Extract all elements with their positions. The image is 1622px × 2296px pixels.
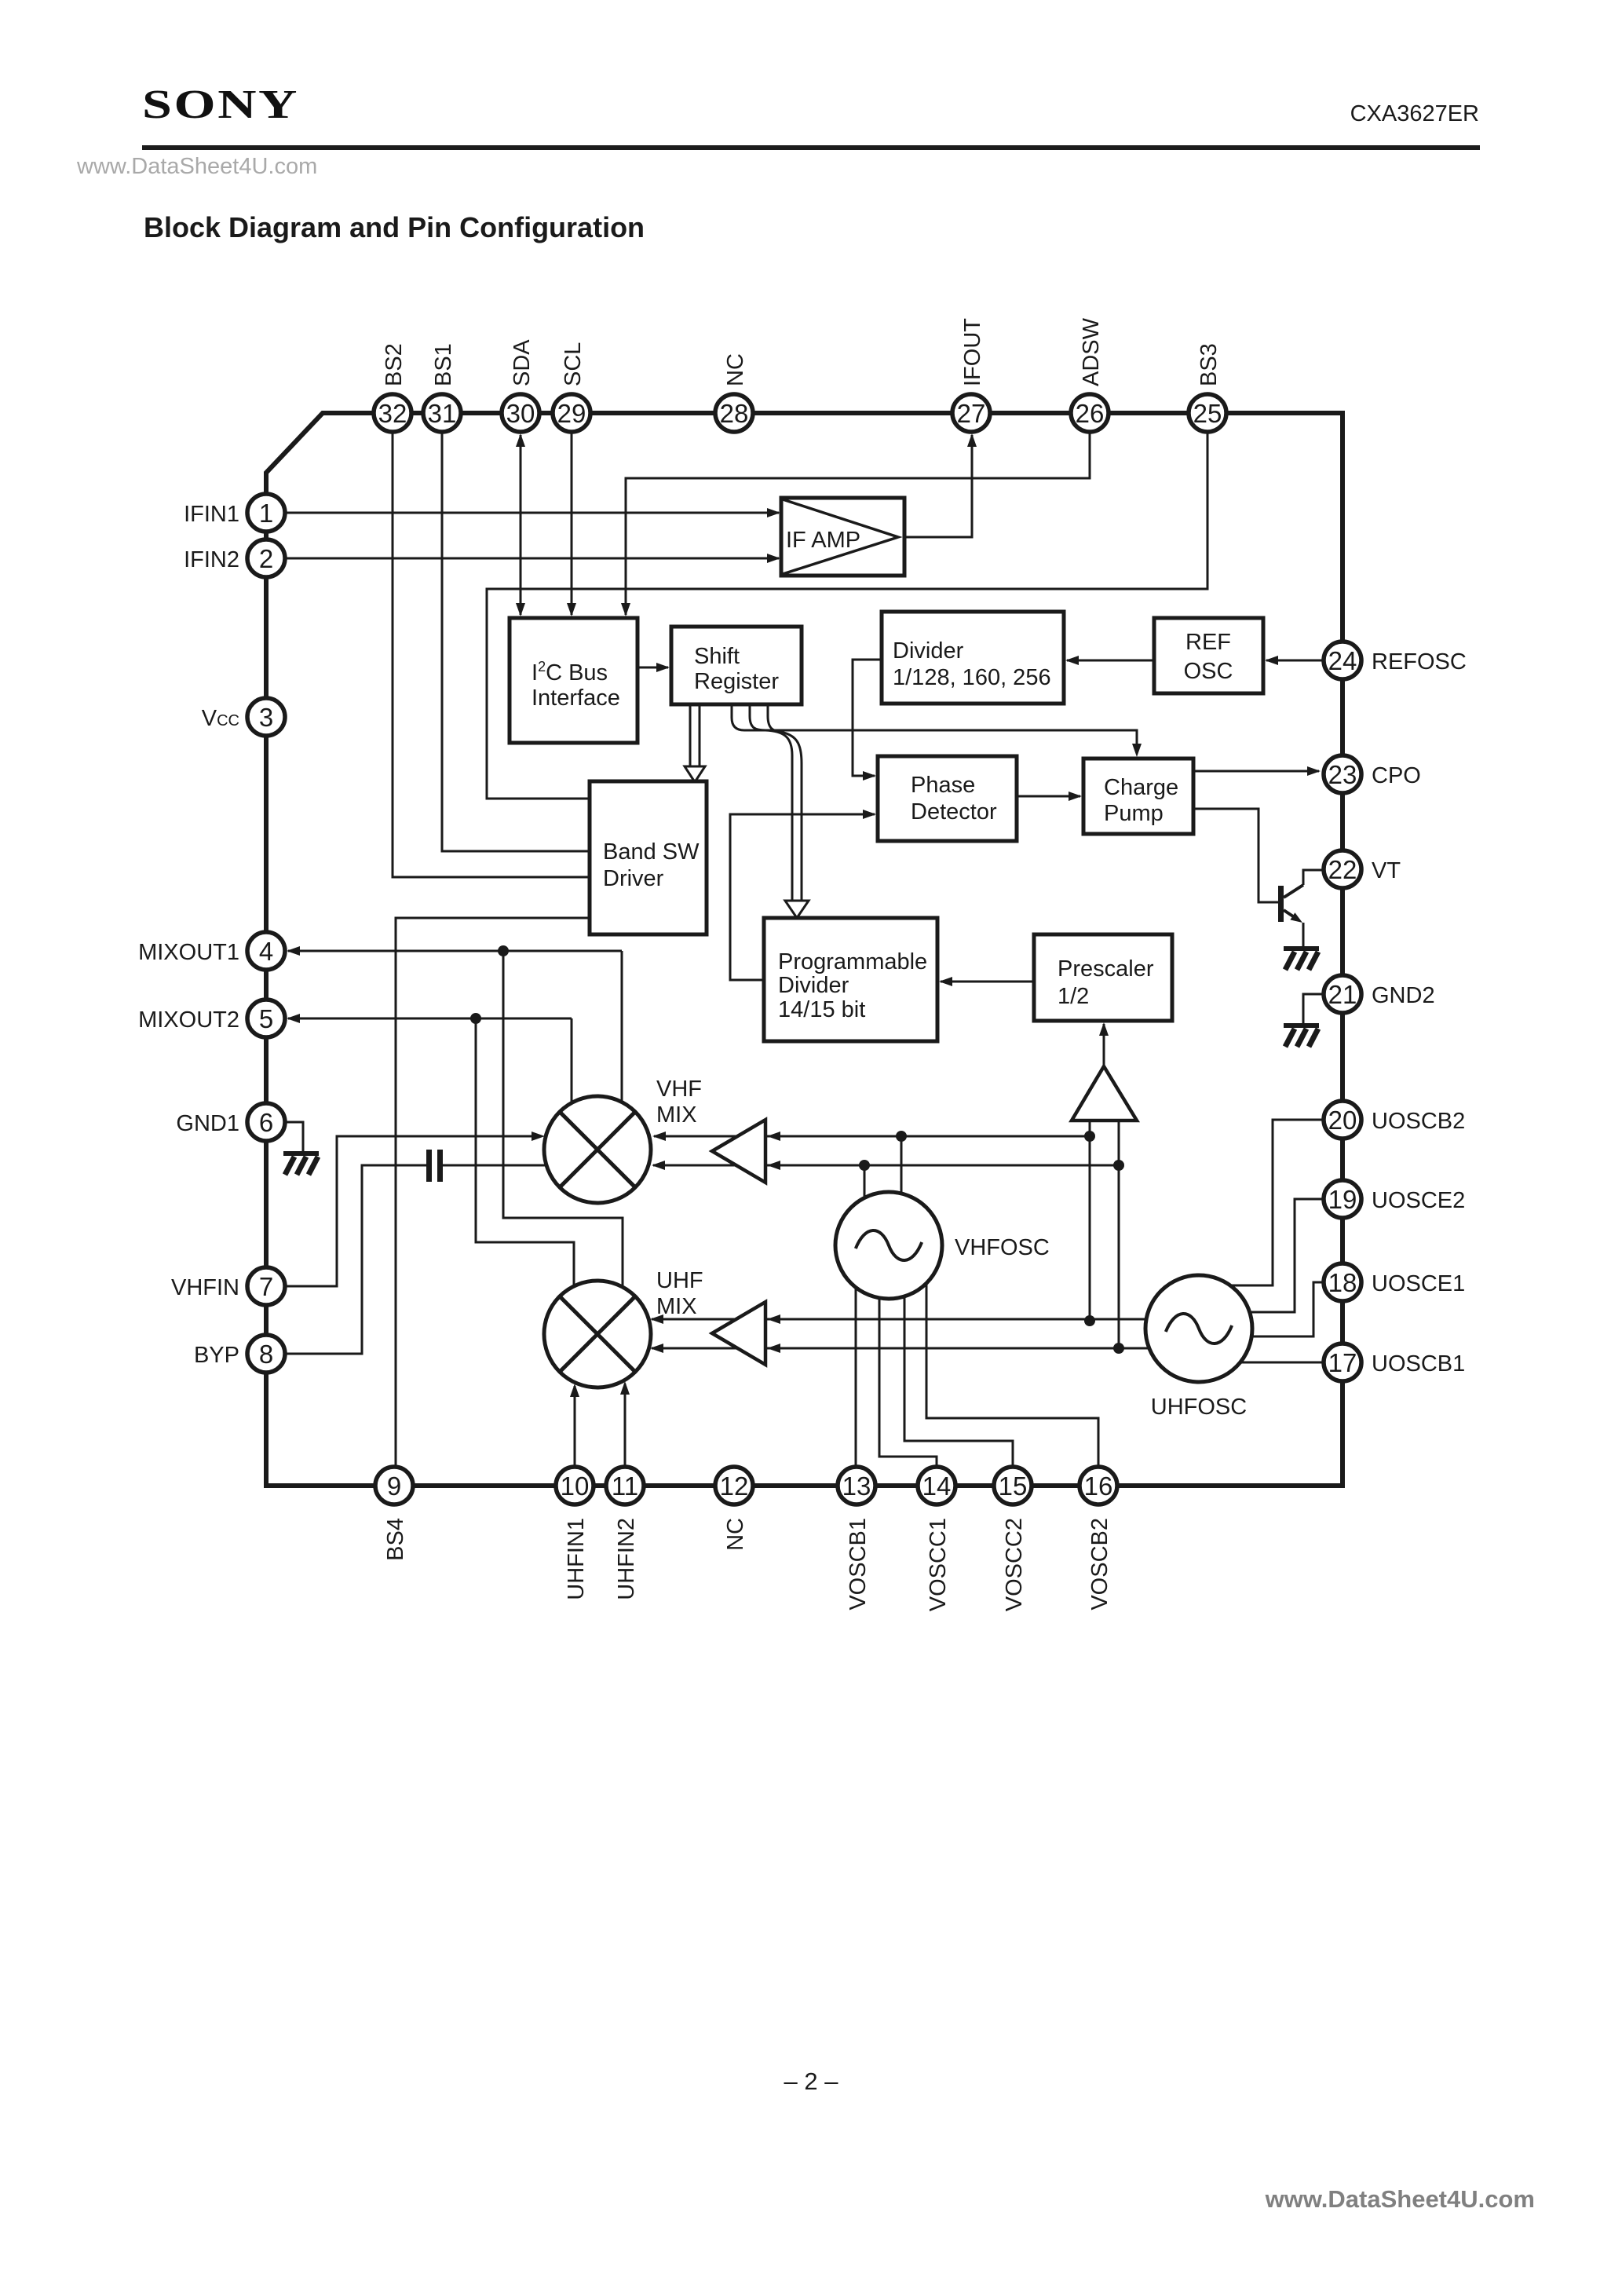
svg-text:26: 26	[1076, 399, 1105, 428]
svg-text:MIX: MIX	[656, 1294, 697, 1319]
svg-text:Band SW: Band SW	[603, 839, 700, 865]
svg-text:VOSCB2: VOSCB2	[1087, 1518, 1112, 1610]
svg-text:UHFIN2: UHFIN2	[614, 1518, 639, 1600]
svg-text:27: 27	[957, 399, 986, 428]
svg-text:14/15 bit: 14/15 bit	[778, 997, 865, 1022]
svg-text:IFIN2: IFIN2	[184, 547, 239, 572]
svg-text:VHF: VHF	[656, 1077, 702, 1102]
svg-text:IFOUT: IFOUT	[960, 318, 985, 386]
svg-text:12: 12	[720, 1472, 749, 1501]
svg-text:SCL: SCL	[561, 342, 586, 386]
svg-text:10: 10	[561, 1472, 590, 1501]
svg-text:23: 23	[1328, 760, 1357, 789]
svg-text:REFOSC: REFOSC	[1372, 649, 1467, 675]
svg-text:VHFOSC: VHFOSC	[955, 1235, 1050, 1260]
svg-text:Pump: Pump	[1104, 801, 1164, 826]
svg-text:VOSCC2: VOSCC2	[1002, 1518, 1027, 1611]
svg-text:Block Diagram and Pin Configur: Block Diagram and Pin Configuration	[144, 211, 645, 243]
svg-text:BS1: BS1	[431, 343, 456, 386]
svg-text:UHFIN1: UHFIN1	[564, 1518, 589, 1600]
svg-text:CXA3627ER: CXA3627ER	[1350, 101, 1479, 126]
svg-text:MIXOUT1: MIXOUT1	[138, 940, 239, 965]
svg-text:4: 4	[259, 937, 273, 966]
svg-text:3: 3	[259, 703, 273, 732]
svg-text:28: 28	[720, 399, 749, 428]
svg-text:UOSCE2: UOSCE2	[1372, 1188, 1465, 1213]
svg-text:15: 15	[999, 1472, 1028, 1501]
svg-text:16: 16	[1084, 1472, 1113, 1501]
svg-text:18: 18	[1328, 1268, 1357, 1297]
svg-text:– 2 –: – 2 –	[784, 2067, 839, 2095]
svg-text:IF AMP: IF AMP	[786, 528, 860, 553]
svg-text:25: 25	[1193, 399, 1222, 428]
svg-text:BS3: BS3	[1196, 343, 1222, 386]
svg-text:Prescaler: Prescaler	[1058, 956, 1154, 982]
svg-text:SDA: SDA	[510, 339, 535, 386]
svg-text:VHFIN: VHFIN	[171, 1275, 239, 1300]
svg-text:NC: NC	[723, 1518, 748, 1551]
svg-text:BS2: BS2	[382, 343, 407, 386]
svg-text:11: 11	[612, 1472, 638, 1501]
svg-text:NC: NC	[723, 353, 748, 386]
svg-text:VOSCB1: VOSCB1	[846, 1518, 871, 1610]
svg-text:Register: Register	[694, 669, 779, 694]
svg-text:Phase: Phase	[911, 773, 975, 798]
svg-text:21: 21	[1328, 980, 1357, 1009]
svg-text:19: 19	[1328, 1185, 1357, 1214]
svg-text:20: 20	[1328, 1106, 1357, 1135]
svg-text:BYP: BYP	[194, 1343, 239, 1368]
svg-text:www.DataSheet4U.com: www.DataSheet4U.com	[76, 154, 317, 179]
svg-text:UHFOSC: UHFOSC	[1151, 1395, 1247, 1420]
svg-text:UOSCE1: UOSCE1	[1372, 1271, 1465, 1296]
svg-text:ADSW: ADSW	[1079, 317, 1104, 386]
svg-text:SONY: SONY	[142, 82, 299, 127]
svg-text:MIXOUT2: MIXOUT2	[138, 1007, 239, 1033]
svg-text:9: 9	[387, 1472, 401, 1501]
svg-text:22: 22	[1328, 855, 1357, 884]
svg-text:13: 13	[842, 1472, 871, 1501]
svg-text:CPO: CPO	[1372, 763, 1421, 788]
svg-text:6: 6	[259, 1108, 273, 1137]
svg-text:32: 32	[378, 399, 407, 428]
svg-text:Divider: Divider	[893, 638, 964, 664]
svg-text:Detector: Detector	[911, 799, 997, 824]
svg-text:Shift: Shift	[694, 644, 740, 669]
svg-text:8: 8	[259, 1340, 273, 1369]
svg-text:Interface: Interface	[532, 686, 620, 711]
svg-text:2: 2	[259, 544, 273, 573]
svg-text:www.DataSheet4U.com: www.DataSheet4U.com	[1265, 2185, 1535, 2213]
svg-text:VT: VT	[1372, 858, 1401, 883]
svg-text:GND1: GND1	[176, 1111, 239, 1136]
svg-text:24: 24	[1328, 646, 1357, 675]
svg-text:14: 14	[922, 1472, 952, 1501]
svg-text:UHF: UHF	[656, 1268, 703, 1293]
svg-text:Charge: Charge	[1104, 775, 1178, 800]
svg-text:UOSCB2: UOSCB2	[1372, 1109, 1465, 1134]
svg-text:UOSCB1: UOSCB1	[1372, 1351, 1465, 1377]
svg-text:VOSCC1: VOSCC1	[926, 1518, 951, 1611]
svg-text:1/2: 1/2	[1058, 984, 1089, 1009]
svg-text:Programmable: Programmable	[778, 949, 927, 974]
svg-text:REF: REF	[1185, 630, 1231, 655]
svg-text:GND2: GND2	[1372, 983, 1435, 1008]
svg-text:29: 29	[557, 399, 586, 428]
svg-text:1/128, 160, 256: 1/128, 160, 256	[893, 665, 1051, 690]
svg-text:Driver: Driver	[603, 866, 664, 891]
svg-text:17: 17	[1328, 1348, 1357, 1377]
svg-text:BS4: BS4	[383, 1518, 408, 1561]
svg-text:31: 31	[428, 399, 457, 428]
svg-text:Divider: Divider	[778, 973, 849, 998]
svg-text:7: 7	[259, 1272, 273, 1301]
svg-text:30: 30	[506, 399, 535, 428]
svg-text:OSC: OSC	[1184, 659, 1233, 684]
svg-text:5: 5	[259, 1004, 273, 1033]
svg-text:MIX: MIX	[656, 1102, 697, 1128]
svg-text:IFIN1: IFIN1	[184, 502, 239, 527]
svg-text:1: 1	[259, 499, 273, 528]
